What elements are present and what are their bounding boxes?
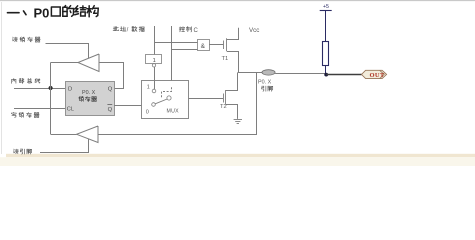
ground symbol under T2 [234,120,242,124]
switch arm [155,99,167,104]
svg-text:+5: +5 [323,4,329,10]
wire AND output to T1 gate [209,44,224,46]
buffer read-pin tri-state (lower, points left) [77,126,98,143]
power +5 terminal [320,4,332,11]
wire inverter output to MUX contact 1 [154,67,156,89]
svg-text:T1: T1 [222,56,229,62]
and-gate & box [198,40,210,51]
label 写锁存器 (write latch) [11,112,39,117]
wire buffer2 output to bus [51,134,77,136]
latch U1 P0.X 锁存器 box [66,82,115,116]
svg-text:OUT: OUT [370,72,385,79]
wire address/data branch to AND gate [154,42,198,44]
transistor T1 (upper FET) [224,28,239,73]
label 控制C (control C) [179,27,198,34]
svg-text:Vcc: Vcc [249,27,259,34]
inverter 1 box with bubble [146,55,162,68]
wire bus vertical linking buffers [50,63,52,135]
node junction dot at pull-up [324,73,328,77]
node MUX contact 0 [146,103,156,116]
wire junction to OUT terminal [326,74,361,76]
svg-text:Q: Q [108,86,113,92]
svg-text:T2: T2 [220,104,227,110]
wire 读锁存器 control to buffer [46,44,89,59]
wire buffer2 input from pin node [98,73,257,135]
svg-text:1: 1 [153,58,156,64]
wire pin to pull-up junction [275,73,326,75]
transistor T2 (lower FET) [224,73,238,119]
label 读锁存器 (read latch) [13,37,40,42]
wire latch Q feedback to buffer1 input [99,63,124,89]
buffer read-latch tri-state (upper, points left) [78,54,99,72]
label P0.X 引脚 (pin) [258,79,273,91]
resistor R1 pull-up [323,42,329,66]
wire latch Qbar to MUX 0 input [114,105,152,107]
wire internal bus to D input [14,88,65,90]
wire 读引脚 control to buffer [40,139,89,153]
wire pin node horizontal [238,72,262,74]
svg-text:MUX: MUX [167,109,180,115]
label 地址/数据 (address/data) [113,26,144,33]
svg-text:Q: Q [108,107,113,113]
svg-text:C: C [194,28,199,34]
svg-text:&: & [201,43,206,50]
wire 写锁存器 to CL input [14,108,65,110]
wire MUX output to T2 gate [171,98,223,100]
wire control vertical to MUX [171,26,173,87]
node MUX pivot contact [167,96,171,100]
node junction dot on internal bus [49,86,53,90]
node MUX contact 1 [147,85,156,93]
title text 一、P0口的结构 [8,6,99,21]
wire buffer1 output to bus [51,62,78,64]
svg-text:1: 1 [147,85,150,91]
wire resistor to junction [325,65,327,75]
dashed control link in MUX [162,87,172,97]
svg-text:CL: CL [67,107,74,113]
wire +5 to resistor [325,10,327,41]
pin ellipse P0.X [262,70,275,75]
svg-text:P0. X: P0. X [82,90,96,96]
wire address/data vertical [154,26,156,55]
label 读引脚 (read pin) [14,149,32,154]
wire control branch to AND gate [172,49,198,51]
svg-text:P0: P0 [34,6,50,21]
label 内部总线 (internal bus) [12,78,40,83]
svg-text:P0. X: P0. X [258,79,272,85]
svg-text:0: 0 [146,109,149,115]
multiplexer MUX box [142,81,189,119]
terminal OUT flag [362,70,387,79]
svg-text:D: D [68,86,72,92]
